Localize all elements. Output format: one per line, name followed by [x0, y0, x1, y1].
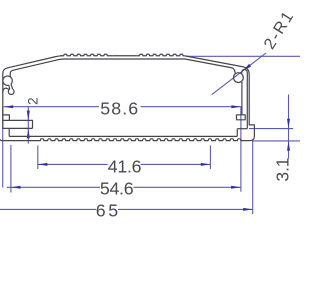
svg-text:58.6: 58.6: [100, 98, 139, 118]
svg-text:54.6: 54.6: [100, 179, 134, 199]
svg-text:41.6: 41.6: [108, 157, 142, 177]
svg-text:65: 65: [96, 200, 121, 220]
svg-text:2: 2: [25, 98, 40, 105]
svg-text:3.1: 3.1: [272, 158, 292, 182]
